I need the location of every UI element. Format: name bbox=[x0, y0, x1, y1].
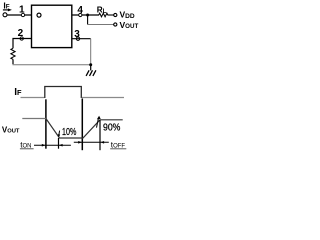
pin 1 indicator dot bbox=[37, 13, 41, 17]
wire pin 3 to ground bbox=[72, 38, 91, 40]
ground bbox=[90, 65, 92, 71]
wire pin3 drop bbox=[90, 39, 92, 65]
wire junction to VOUT terminal bbox=[87, 15, 89, 25]
VDD terminal bbox=[114, 13, 117, 16]
90% crossing tick bbox=[99, 120, 101, 150]
IF current arrow bbox=[3, 9, 9, 11]
svg-text:RL: RL bbox=[97, 6, 107, 15]
svg-text:IF: IF bbox=[14, 87, 22, 98]
svg-text:VOUT: VOUT bbox=[120, 20, 139, 30]
node junction pin4/VOUT bbox=[86, 14, 89, 17]
VOUT waveform trace bbox=[22, 118, 46, 120]
wire R1 to ground bus bbox=[12, 59, 14, 64]
wire resistor to VDD bbox=[108, 14, 114, 16]
wire pin 4 to resistor bbox=[72, 14, 99, 16]
tOFF label underline bbox=[110, 148, 126, 150]
10% crossing tick bbox=[58, 138, 60, 149]
VOUT terminal bbox=[114, 23, 117, 26]
optocoupler U1 body bbox=[32, 5, 72, 47]
tON label underline bbox=[20, 148, 34, 150]
svg-text:tOFF: tOFF bbox=[111, 141, 126, 150]
svg-text:tON: tON bbox=[20, 141, 31, 150]
input terminal bbox=[3, 13, 7, 17]
ground junction bbox=[89, 63, 92, 66]
tON reference line (IF rising edge) bbox=[45, 99, 47, 148]
resistor R1 (input series) bbox=[11, 48, 15, 59]
svg-text:90%: 90% bbox=[103, 121, 120, 133]
IF waveform trace bbox=[21, 97, 45, 99]
pin 2 bbox=[20, 37, 23, 40]
pin 3 bbox=[76, 37, 79, 40]
svg-text:VOUT: VOUT bbox=[2, 125, 20, 134]
tOFF reference line (IF falling edge) bbox=[81, 99, 83, 151]
pin 1 bbox=[21, 13, 24, 16]
wire pin 2 to resistor R1 bbox=[13, 39, 32, 49]
svg-text:10%: 10% bbox=[62, 127, 76, 138]
resistor RL bbox=[99, 13, 108, 17]
tOFF dimension bbox=[74, 141, 109, 143]
wire input to pin 1 bbox=[7, 14, 31, 16]
svg-text:VDD: VDD bbox=[120, 10, 135, 20]
pin 4 bbox=[79, 13, 82, 16]
tON dimension bbox=[34, 144, 71, 146]
